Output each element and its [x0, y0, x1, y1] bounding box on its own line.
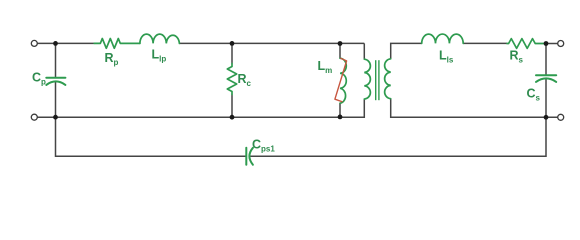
svg-text:Rc: Rc [238, 72, 252, 88]
junction node top of Lm [338, 41, 343, 46]
transformer secondary winding [385, 59, 391, 99]
wire top rail left segment [37, 42, 94, 44]
junction node top of Rc [230, 41, 235, 46]
capacitor Cps1 [246, 148, 253, 165]
saturation mark on Lm [335, 58, 347, 101]
junction node top of Cs [544, 41, 549, 46]
terminal top right [558, 41, 564, 47]
terminal top left [31, 40, 37, 46]
resistor Rp [94, 39, 140, 49]
wire Cs vertical lower [545, 79, 547, 117]
terminal bottom left [31, 114, 37, 120]
wire Cps1 loop left [56, 117, 247, 156]
resistor Rs [507, 39, 546, 49]
svg-text:Rs: Rs [510, 48, 524, 64]
wire bottom rail primary [37, 99, 364, 117]
resistor Rc [227, 64, 236, 95]
svg-text:Rp: Rp [105, 51, 119, 67]
wire Cps1 loop right [250, 117, 546, 156]
junction node bottom of Rc [230, 115, 235, 120]
wire Cp vertical lower [55, 82, 57, 118]
wire transformer primary top lead [363, 43, 365, 59]
junction node bottom of Lm [338, 115, 343, 120]
wire Rc vertical upper lead [231, 43, 233, 63]
junction node top of Cp [53, 41, 58, 46]
svg-text:Cps1: Cps1 [252, 138, 275, 154]
wire Cs vertical upper [545, 44, 547, 75]
transformer primary winding [364, 59, 370, 99]
wire top rail right terminal stub [546, 43, 558, 45]
transformer core [376, 60, 379, 100]
svg-text:Cs: Cs [527, 87, 541, 103]
wire Lm upper lead [339, 44, 341, 59]
svg-text:Lls: Lls [439, 49, 454, 65]
wire Lm lower lead [339, 103, 341, 117]
svg-text:Cp: Cp [32, 71, 46, 87]
junction node bottom of Cp [53, 115, 58, 120]
junction node bottom of Cs [544, 115, 549, 120]
svg-text:Llp: Llp [152, 48, 167, 64]
inductor Llp [140, 34, 180, 43]
capacitor Cs [536, 75, 556, 82]
inductor Lm [340, 58, 346, 103]
terminal bottom right [558, 114, 564, 120]
wire top rail right of Lls [463, 42, 507, 44]
wire bottom rail secondary [391, 99, 558, 117]
wire Rc vertical lower lead [231, 95, 233, 118]
wire transformer secondary top lead [391, 43, 422, 58]
svg-text:Lm: Lm [318, 59, 333, 75]
wire Cp vertical upper [55, 43, 57, 77]
inductor Lls [422, 34, 464, 43]
capacitor Cp [46, 78, 65, 85]
wire top rail middle segment [179, 42, 364, 44]
